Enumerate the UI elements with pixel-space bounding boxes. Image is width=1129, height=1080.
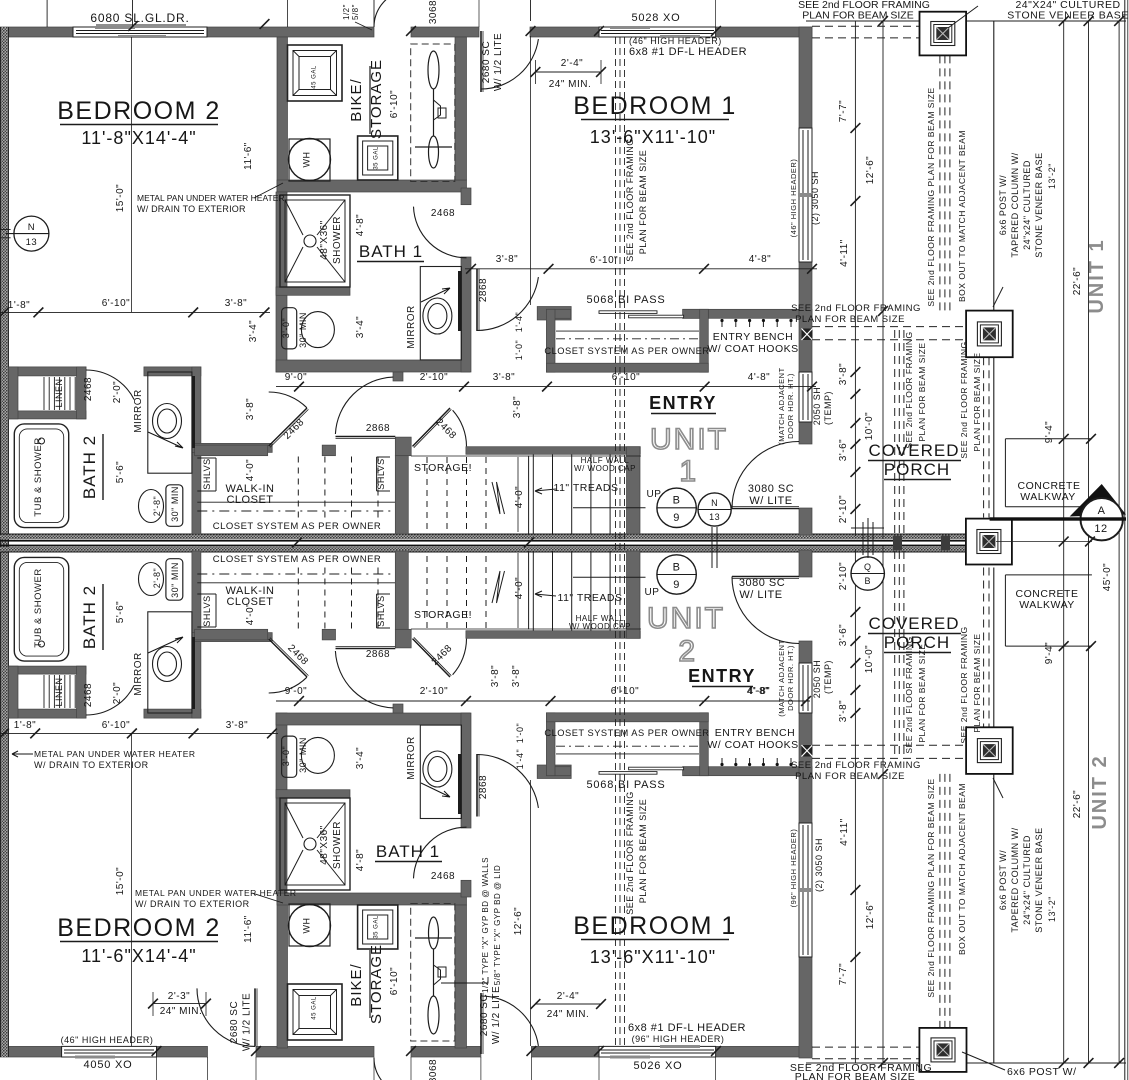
closet hang dashes U2 <box>297 566 299 629</box>
svg-text:B: B <box>673 495 681 507</box>
svg-text:(46" HIGH HEADER): (46" HIGH HEADER) <box>629 36 722 46</box>
svg-text:BIKE/: BIKE/ <box>348 78 365 121</box>
svg-text:2'-8": 2'-8" <box>152 568 162 588</box>
post leader lines <box>948 6 978 28</box>
svg-text:UNIT 1: UNIT 1 <box>1086 238 1108 313</box>
svg-text:SHLVS: SHLVS <box>202 458 212 489</box>
svg-text:STORAGE!: STORAGE! <box>414 462 472 474</box>
svg-text:2050 SH: 2050 SH <box>812 387 822 426</box>
window 4050 XO bottom-left <box>62 1046 157 1057</box>
window 2050 SH (TEMP) right wall <box>799 372 812 422</box>
svg-text:2'-4": 2'-4" <box>557 991 579 1002</box>
wall below shower U2 <box>276 790 350 798</box>
wall bath2/closet band U2 <box>192 633 272 642</box>
svg-text:3'-4": 3'-4" <box>355 747 366 769</box>
svg-text:12'-6": 12'-6" <box>865 901 876 929</box>
svg-text:3080 SC: 3080 SC <box>739 577 785 589</box>
svg-text:PORCH: PORCH <box>884 460 950 479</box>
svg-text:CLOSET SYSTEM AS PER OWNER: CLOSET SYSTEM AS PER OWNER <box>213 554 382 565</box>
svg-text:24" MIN.: 24" MIN. <box>160 1006 203 1017</box>
svg-text:4'-0": 4'-0" <box>514 486 525 508</box>
dim 2-3 bedroom2 bottom <box>153 1003 206 1005</box>
svg-text:6x6 POST W/: 6x6 POST W/ <box>998 175 1008 235</box>
svg-text:15'-0": 15'-0" <box>115 867 126 895</box>
35-gal tank U1 <box>358 136 398 180</box>
svg-text:(MATCH ADJACENT: (MATCH ADJACENT <box>777 367 786 444</box>
svg-text:30" MIN: 30" MIN <box>298 312 308 348</box>
svg-text:2050 SH: 2050 SH <box>812 660 822 699</box>
svg-text:BEDROOM 1: BEDROOM 1 <box>573 92 737 120</box>
svg-text:24" MIN.: 24" MIN. <box>549 79 592 90</box>
svg-text:BOX OUT TO MATCH ADJACENT BEAM: BOX OUT TO MATCH ADJACENT BEAM <box>957 783 967 955</box>
svg-text:9: 9 <box>673 579 680 591</box>
svg-text:BATH 1: BATH 1 <box>376 842 440 861</box>
svg-text:5028 XO: 5028 XO <box>631 12 680 24</box>
svg-text:2868: 2868 <box>478 278 489 302</box>
svg-text:CLOSET: CLOSET <box>226 494 273 506</box>
bike symbol U2 <box>428 996 439 1034</box>
svg-text:4'-8": 4'-8" <box>355 214 366 236</box>
svg-text:1/2": 1/2" <box>342 4 351 20</box>
storage break symbol U1 <box>492 482 505 514</box>
bedroom2 note circle N13 <box>14 216 49 251</box>
porch top boundary line <box>806 20 1126 22</box>
svg-text:3068: 3068 <box>428 0 439 24</box>
svg-text:METAL PAN UNDER WATER HEATER: METAL PAN UNDER WATER HEATER <box>137 193 285 203</box>
svg-text:W/ DRAIN TO EXTERIOR: W/ DRAIN TO EXTERIOR <box>135 899 250 909</box>
svg-text:4'-8": 4'-8" <box>748 686 770 697</box>
svg-text:11'-6"X14'-4": 11'-6"X14'-4" <box>81 946 196 966</box>
svg-text:2468: 2468 <box>83 683 94 707</box>
bike storage dashed stall U1 <box>411 44 455 182</box>
door 2468 bath2 U2 <box>86 686 134 716</box>
party wall between units <box>0 534 993 539</box>
svg-text:9'-4": 9'-4" <box>1044 642 1055 664</box>
svg-text:W/ WOOD CAP: W/ WOOD CAP <box>574 464 636 473</box>
svg-text:6x8 #1 DF-L HEADER: 6x8 #1 DF-L HEADER <box>629 46 747 58</box>
svg-text:48"X36": 48"X36" <box>319 825 330 865</box>
svg-text:W/ 1/2 LITE: W/ 1/2 LITE <box>491 986 502 1044</box>
svg-text:ENTRY: ENTRY <box>649 393 717 413</box>
svg-text:BOX OUT TO MATCH ADJACENT BEAM: BOX OUT TO MATCH ADJACENT BEAM <box>957 130 967 302</box>
svg-text:BEDROOM 2: BEDROOM 2 <box>57 97 221 125</box>
svg-text:SEE 2nd FLOOR FRAMING: SEE 2nd FLOOR FRAMING <box>791 760 921 771</box>
dim row B bedroom1 (unit1) <box>465 268 817 270</box>
wall bike-storage right U2 <box>455 905 467 1048</box>
storage area right of closet dashes U2 <box>517 553 519 628</box>
svg-text:COVERED: COVERED <box>868 441 959 460</box>
door 2468 storage U2 <box>413 639 451 677</box>
door 2868 closet band U1 <box>336 436 396 438</box>
water heater WH U2 <box>289 904 330 946</box>
walk-in closet top band segments U1 <box>195 445 268 456</box>
svg-text:BEDROOM 1: BEDROOM 1 <box>573 912 737 940</box>
svg-text:11'-6": 11'-6" <box>243 142 254 170</box>
wall bath2 vanity top band U1 <box>144 367 201 376</box>
svg-text:BATH 1: BATH 1 <box>359 242 423 261</box>
closet pier and right wall U1 <box>395 437 411 456</box>
svg-text:13'-6"X11'-10": 13'-6"X11'-10" <box>590 947 716 967</box>
svg-text:W/ WOOD CAP: W/ WOOD CAP <box>569 622 631 631</box>
svg-text:BIKE/: BIKE/ <box>348 963 365 1006</box>
svg-text:6080 SL.GL.DR.: 6080 SL.GL.DR. <box>90 11 189 25</box>
svg-text:5'-6": 5'-6" <box>115 601 126 623</box>
vanity bath2 U1 <box>148 372 192 473</box>
svg-text:PLAN FOR BEAM SIZE: PLAN FOR BEAM SIZE <box>638 799 648 904</box>
svg-text:(46" HIGH HEADER): (46" HIGH HEADER) <box>789 159 798 238</box>
svg-text:METAL PAN UNDER WATER HEATER: METAL PAN UNDER WATER HEATER <box>135 888 297 898</box>
beam pocket marker on right wall <box>802 329 813 341</box>
svg-text:STONE VENEER BASE: STONE VENEER BASE <box>1007 10 1129 22</box>
svg-text:7'-7": 7'-7" <box>838 100 849 122</box>
svg-text:3'-4": 3'-4" <box>248 320 259 342</box>
svg-text:11'-6": 11'-6" <box>243 915 254 943</box>
dim row D left (unit2) <box>0 732 278 734</box>
section marker A/12 circle <box>1081 498 1123 540</box>
door 2868 bath1-hall U2 <box>476 754 478 817</box>
wall bath1 bottom U1 <box>276 360 470 372</box>
svg-text:DOOR HDR. HT.): DOOR HDR. HT.) <box>786 373 795 439</box>
svg-text:1'-4": 1'-4" <box>514 312 524 332</box>
6x6 post lower <box>919 1028 966 1072</box>
door 2680 SC at bedroom1 U1 <box>480 31 482 92</box>
dim 2-4 bedroom1 bottom <box>535 1003 601 1005</box>
stairs note circles U2 <box>657 555 696 594</box>
svg-text:3'-8": 3'-8" <box>226 720 248 731</box>
svg-text:SEE 2nd FLOOR FRAMING PLAN FOR: SEE 2nd FLOOR FRAMING PLAN FOR BEAM SIZE <box>926 778 936 997</box>
door 2468 walk-in closet U1 <box>269 408 307 446</box>
svg-text:3'-8": 3'-8" <box>838 363 849 385</box>
svg-text:1'-0": 1'-0" <box>514 340 524 360</box>
svg-text:SEE 2nd FLOOR FRAMING: SEE 2nd FLOOR FRAMING <box>625 138 635 262</box>
bi-pass door panels U2 <box>599 772 657 775</box>
svg-text:MIRROR: MIRROR <box>133 652 144 696</box>
svg-text:6'-10": 6'-10" <box>590 255 618 266</box>
svg-text:4050 XO: 4050 XO <box>83 1059 132 1071</box>
svg-text:1'-4": 1'-4" <box>515 749 525 769</box>
svg-text:2868: 2868 <box>366 423 390 434</box>
svg-text:2: 2 <box>678 635 695 668</box>
svg-text:W/ DRAIN TO EXTERIOR: W/ DRAIN TO EXTERIOR <box>137 204 246 214</box>
svg-text:W/ COAT HOOKS: W/ COAT HOOKS <box>707 739 798 751</box>
svg-text:13'-2": 13'-2" <box>1047 163 1057 189</box>
closet rod lines U2 <box>197 582 395 584</box>
svg-text:3'-8": 3'-8" <box>225 298 247 309</box>
svg-text:35 GAL: 35 GAL <box>374 146 380 170</box>
svg-text:CLOSET SYSTEM AS PER OWNER: CLOSET SYSTEM AS PER OWNER <box>544 346 709 356</box>
svg-text:LINEN: LINEN <box>54 378 64 407</box>
svg-text:SEE 2nd FLOOR FRAMING PLAN FOR: SEE 2nd FLOOR FRAMING PLAN FOR BEAM SIZE <box>926 87 936 306</box>
svg-text:WH: WH <box>302 918 312 934</box>
svg-text:B: B <box>673 562 681 574</box>
exterior left wall hatched <box>0 27 9 1057</box>
svg-text:45'-0": 45'-0" <box>1102 563 1113 591</box>
wall bath1 bottom U2 <box>276 713 470 725</box>
svg-text:22'-6": 22'-6" <box>1072 790 1083 818</box>
svg-text:METAL PAN UNDER WATER HEATER: METAL PAN UNDER WATER HEATER <box>34 749 196 759</box>
svg-text:(46" HIGH HEADER): (46" HIGH HEADER) <box>61 1035 154 1045</box>
svg-text:2'-0": 2'-0" <box>112 381 123 403</box>
svg-text:4'-8": 4'-8" <box>355 849 366 871</box>
svg-text:4'-8": 4'-8" <box>748 372 770 383</box>
svg-text:3'-8": 3'-8" <box>245 398 256 420</box>
svg-text:W/ COAT HOOKS: W/ COAT HOOKS <box>707 343 798 355</box>
svg-text:BATH 2: BATH 2 <box>80 435 99 499</box>
svg-text:3'-8": 3'-8" <box>511 665 522 687</box>
door 2468 bath2 U1 <box>86 370 134 400</box>
door 3068 bike storage exterior U1 <box>374 0 400 27</box>
door 2868 bath1-hall U1 <box>476 269 478 332</box>
svg-text:STONE VENEER BASE: STONE VENEER BASE <box>1034 152 1044 257</box>
svg-text:2868: 2868 <box>366 649 390 660</box>
svg-text:(2) 3050 SH: (2) 3050 SH <box>810 171 820 225</box>
bi-pass door panels U1 <box>599 311 657 314</box>
unit beam triple dashed lines <box>615 37 617 1046</box>
coat hooks U2 <box>721 758 723 766</box>
svg-text:2'-10": 2'-10" <box>420 372 448 383</box>
entry door 3080 SC swing <box>732 576 799 578</box>
svg-text:48"X36": 48"X36" <box>319 220 330 260</box>
party wall centreline ticks right <box>1059 537 1069 547</box>
svg-text:13'-6"X11'-10": 13'-6"X11'-10" <box>590 127 716 147</box>
svg-text:9'-0": 9'-0" <box>285 372 307 383</box>
storage hang dashes U1 <box>426 457 428 532</box>
svg-text:10'-0": 10'-0" <box>864 645 875 673</box>
svg-text:6'-10": 6'-10" <box>102 298 130 309</box>
bedroom1 south band left U1 <box>537 307 571 321</box>
svg-text:24"x24" CULTURED: 24"x24" CULTURED <box>1022 160 1032 250</box>
svg-text:4'-11": 4'-11" <box>839 818 850 846</box>
svg-text:6'-10": 6'-10" <box>611 686 639 697</box>
heavy section line <box>990 517 1126 520</box>
svg-text:2680 SC: 2680 SC <box>481 41 492 83</box>
svg-text:(96" HIGH HEADER): (96" HIGH HEADER) <box>632 1034 725 1044</box>
svg-text:30" MIN: 30" MIN <box>170 486 180 522</box>
svg-text:2468: 2468 <box>83 377 94 401</box>
svg-text:6x6 POST W/: 6x6 POST W/ <box>1007 1066 1077 1078</box>
svg-text:PORCH: PORCH <box>884 633 950 652</box>
svg-text:6'-10": 6'-10" <box>389 90 400 118</box>
svg-text:PLAN FOR BEAM SIZE: PLAN FOR BEAM SIZE <box>917 643 927 742</box>
svg-text:SEE 2nd FLOOR FRAMING: SEE 2nd FLOOR FRAMING <box>904 636 914 753</box>
mirror bath2 U1 <box>192 376 195 448</box>
svg-text:2680 SC: 2680 SC <box>229 1001 240 1043</box>
svg-text:A: A <box>1098 505 1106 517</box>
svg-text:1'-0": 1'-0" <box>515 723 525 743</box>
svg-text:N: N <box>711 498 718 508</box>
toilet bath1 U1 <box>282 308 297 349</box>
wall bath1 left U2 <box>276 713 287 893</box>
window (2) 3050 SH right wall <box>799 823 812 957</box>
bottom sheet dimension stubs <box>156 1057 158 1080</box>
stair half wall U1 <box>466 447 640 455</box>
svg-text:4'-0": 4'-0" <box>514 577 525 599</box>
svg-text:3'-8": 3'-8" <box>496 254 518 265</box>
porch/site vertical reference lines <box>854 21 856 536</box>
water heater 45-gal tank U2 <box>288 984 343 1040</box>
wall bath1 right segments U2 <box>461 880 471 897</box>
svg-text:5026 XO: 5026 XO <box>633 1060 682 1072</box>
svg-text:9: 9 <box>673 512 680 524</box>
bedroom1 south band right / entry alcove U1 <box>683 309 812 318</box>
svg-text:3'-4": 3'-4" <box>355 316 366 338</box>
svg-text:SEE 2nd FLOOR FRAMING: SEE 2nd FLOOR FRAMING <box>959 626 969 743</box>
svg-text:2'-8": 2'-8" <box>152 496 162 516</box>
party wall ticks at stairs <box>524 538 534 548</box>
porch dashed beam lines <box>939 55 941 310</box>
svg-text:45 GAL: 45 GAL <box>312 65 318 89</box>
wall bath2 vanity top band U2 <box>144 709 201 718</box>
wall bath1 left U1 <box>276 192 287 372</box>
window 5026 XO bottom <box>599 1046 716 1057</box>
svg-text:3'-6": 3'-6" <box>838 624 849 646</box>
stair treads U1 <box>532 455 534 535</box>
svg-text:12'-6": 12'-6" <box>513 907 524 935</box>
stairs note circles U1 <box>657 488 696 527</box>
svg-text:B: B <box>864 576 871 586</box>
svg-text:STONE VENEER BASE: STONE VENEER BASE <box>1034 827 1044 932</box>
porch dim ticks <box>851 123 861 133</box>
svg-text:6x6 POST W/: 6x6 POST W/ <box>998 850 1008 910</box>
dim row C hall (unit1) <box>276 386 816 388</box>
svg-text:PLAN FOR BEAM SIZE: PLAN FOR BEAM SIZE <box>972 633 982 732</box>
door 2468 storage U1 <box>413 408 451 446</box>
section marker A/12 triangle <box>1070 484 1126 517</box>
top sheet dimension stubs <box>46 0 48 27</box>
entry closet U1 <box>546 309 570 318</box>
bike symbol U1 <box>428 51 439 89</box>
entry door 3080 SC swing <box>732 508 799 510</box>
storage hang dashes U2 <box>426 553 428 628</box>
35-gal tank U2 <box>358 905 398 949</box>
bike storage dashed stall U2 <box>411 904 455 1042</box>
door 2468 bath1 U1 <box>414 207 467 258</box>
vanity bath2 U2 <box>148 612 192 713</box>
svg-text:22'-6": 22'-6" <box>1072 267 1083 295</box>
toilet bath2 U2 <box>166 559 183 601</box>
wall bike-storage bottom U2 <box>277 893 467 905</box>
svg-text:6'-10": 6'-10" <box>612 372 640 383</box>
door 2468 walk-in closet U2 <box>269 639 307 677</box>
tub bath2 U1 <box>14 424 68 528</box>
svg-text:12: 12 <box>1094 523 1107 535</box>
svg-text:PLAN FOR BEAM SIZE: PLAN FOR BEAM SIZE <box>917 342 927 441</box>
svg-text:3'-8": 3'-8" <box>512 396 523 418</box>
svg-text:3080 SC: 3080 SC <box>748 483 794 495</box>
storage break symbol U2 <box>492 571 505 603</box>
svg-text:TAPERED COLUMN W/: TAPERED COLUMN W/ <box>1010 827 1020 932</box>
svg-text:N: N <box>28 222 35 233</box>
svg-text:2468: 2468 <box>431 871 455 882</box>
walkway side stubs <box>1004 439 1006 507</box>
svg-text:Q: Q <box>864 562 872 572</box>
svg-text:DOOR HDR. HT.): DOOR HDR. HT.) <box>786 645 795 711</box>
svg-text:PLAN FOR BEAM SIZE: PLAN FOR BEAM SIZE <box>972 352 982 451</box>
porch bottom boundary line <box>806 1062 1126 1064</box>
svg-text:35 GAL: 35 GAL <box>374 915 380 939</box>
svg-text:(2) 3050 SH: (2) 3050 SH <box>814 838 824 892</box>
linen closet U1 <box>9 367 87 376</box>
svg-text:W/ 1/2 LITE: W/ 1/2 LITE <box>493 33 504 91</box>
tub bath2 U2 <box>14 557 68 661</box>
svg-text:(TEMP): (TEMP) <box>823 660 833 694</box>
svg-text:5/8": 5/8" <box>351 4 360 20</box>
svg-text:11" TREADS: 11" TREADS <box>558 592 623 604</box>
svg-text:2'-0": 2'-0" <box>112 682 123 704</box>
svg-text:24" MIN.: 24" MIN. <box>547 1009 590 1020</box>
svg-text:5068 BI PASS: 5068 BI PASS <box>586 294 665 306</box>
vanity bath1 U1 <box>420 267 461 360</box>
svg-text:UP: UP <box>645 587 660 598</box>
svg-text:2'-4": 2'-4" <box>561 58 583 69</box>
closet hang dashes U1 <box>297 457 299 520</box>
svg-text:9'-0": 9'-0" <box>285 686 307 697</box>
bedroom1 south band right / entry alcove U2 <box>683 767 812 776</box>
svg-text:COVERED: COVERED <box>868 614 959 633</box>
party wall blocking marks <box>893 536 902 551</box>
svg-text:MIRROR: MIRROR <box>133 389 144 433</box>
svg-text:9'-4": 9'-4" <box>1044 421 1055 443</box>
svg-text:2680 SC: 2680 SC <box>479 994 490 1036</box>
water heater 45-gal tank U1 <box>288 45 343 101</box>
dim 2-4 bedroom1 top <box>535 71 601 73</box>
svg-text:SHOWER: SHOWER <box>332 216 343 264</box>
wall below shower U1 <box>276 287 350 295</box>
svg-text:24"x24" CULTURED: 24"x24" CULTURED <box>1022 835 1032 925</box>
svg-text:2468: 2468 <box>431 208 455 219</box>
svg-text:13: 13 <box>26 237 38 248</box>
half wall bottom edge lines <box>411 455 641 457</box>
stair side wall U1 <box>627 447 641 534</box>
shower 48x36 U2 <box>280 798 350 890</box>
toilet bath2 U1 <box>166 485 183 527</box>
svg-text:3'-6": 3'-6" <box>838 439 849 461</box>
closet rod lines U1 <box>197 501 395 503</box>
svg-text:PLAN FOR BEAM SIZE: PLAN FOR BEAM SIZE <box>802 10 913 22</box>
wall bedroom2/bike-storage U2 <box>277 893 288 1048</box>
svg-text:SHOWER: SHOWER <box>332 821 343 869</box>
coat hooks U1 <box>721 320 723 328</box>
svg-text:TUB & SHOWER: TUB & SHOWER <box>33 568 44 647</box>
concrete walkway edges lower <box>1005 574 1092 576</box>
exterior right wall segments (unit 2) <box>799 550 812 577</box>
svg-text:W/ DRAIN TO EXTERIOR: W/ DRAIN TO EXTERIOR <box>34 760 149 770</box>
svg-text:6'-10": 6'-10" <box>102 720 130 731</box>
wall bike-storage right U1 <box>455 37 467 180</box>
svg-text:BEDROOM 2: BEDROOM 2 <box>57 914 221 942</box>
svg-text:PLAN FOR BEAM SIZE: PLAN FOR BEAM SIZE <box>638 150 648 255</box>
wall B bath2/walk-in closet U1 <box>192 367 201 534</box>
svg-text:1'-8": 1'-8" <box>14 720 36 731</box>
svg-text:SEE 2nd FLOOR FRAMING: SEE 2nd FLOOR FRAMING <box>625 791 635 915</box>
wall bedroom2/bike-storage U1 <box>277 37 288 192</box>
svg-text:3'-0": 3'-0" <box>281 318 291 338</box>
exterior top wall <box>0 27 73 37</box>
exterior right wall segments <box>799 27 812 128</box>
svg-text:3'-8": 3'-8" <box>493 372 515 383</box>
svg-text:10'-0": 10'-0" <box>864 412 875 440</box>
closet shelves brackets U2 <box>197 626 216 628</box>
thermostat circle U2 <box>851 557 884 590</box>
svg-text:WH: WH <box>302 152 312 168</box>
svg-text:UNIT: UNIT <box>647 602 725 635</box>
door 2868 closet band U2 <box>336 648 396 650</box>
stair up arrow U1 <box>573 507 646 509</box>
6x6 post mid-upper <box>966 311 1013 358</box>
walk-in closet top band segments U2 <box>195 629 268 640</box>
svg-text:ENTRY BENCH: ENTRY BENCH <box>715 727 795 739</box>
concrete walkway edges upper <box>1005 438 1092 440</box>
